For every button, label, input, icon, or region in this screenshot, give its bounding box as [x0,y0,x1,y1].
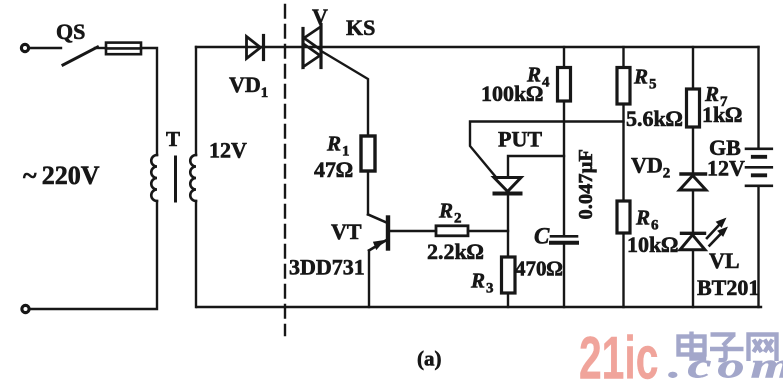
svg-text:5.6kΩ: 5.6kΩ [626,106,683,131]
LED VL cathode bar [682,232,705,235]
svg-text:0.047µF: 0.047µF [575,149,597,219]
thyristor V (KS) left bar [301,29,304,68]
wire battery to bottom rail [757,187,759,307]
wire R1 to VT collector [367,171,369,215]
transistor VT emitter arrow [374,241,384,250]
dashed separation line [284,5,286,335]
wire secondary bottom to rail [195,201,197,307]
wire PUT anode branch [508,156,564,177]
wire rail to R5 [622,47,624,68]
svg-text:12V: 12V [209,138,247,163]
wire rail right corner to battery [757,47,759,149]
transformer T primary winding [151,155,157,201]
watermark char dian [679,332,705,359]
svg-text:T: T [166,127,180,151]
svg-text:5: 5 [649,77,657,93]
svg-text:.com: .com [668,345,783,381]
wire R4 to capacitor C [563,101,565,235]
svg-text:1kΩ: 1kΩ [702,102,742,127]
wire PUT cathode to R3 [507,196,509,258]
fuse FU [106,43,141,55]
svg-text:10kΩ: 10kΩ [627,232,678,257]
wire VD2 to VL [692,190,694,233]
wire VT base to R2 [390,230,436,232]
svg-text:~ 220V: ~ 220V [23,161,100,190]
thyristor V upper triangle [304,27,321,51]
terminal bottom-left [22,305,29,312]
diode VD2 cathode bar [681,172,706,175]
battery GB plates [746,149,772,186]
resistor R6 [617,201,630,233]
watermark char zi [710,335,744,361]
diode VD2 triangle [680,176,707,191]
wire rail to R7 [692,47,694,89]
wire switch to fuse [95,47,106,49]
svg-text:R: R [470,269,485,293]
wire VT emitter to bottom rail [368,251,370,308]
transistor VT collector lead [368,215,387,223]
terminal top-left [21,44,28,51]
svg-text:C: C [534,224,550,249]
watermark char wang [749,335,777,362]
wire rail to R4 [563,47,565,68]
svg-text:21ic: 21ic [579,325,658,381]
svg-text:2: 2 [454,211,462,227]
transformer T core [174,157,177,201]
svg-text:47Ω: 47Ω [314,157,353,182]
svg-text:PUT: PUT [498,127,542,152]
wire fuse to corner [141,48,157,155]
transistor VT base bar [386,218,390,249]
PUT gate wire [470,122,624,177]
wire terminal to switch [30,47,62,49]
svg-text:VL: VL [709,248,740,273]
LED VL triangle [680,235,705,250]
transformer T secondary winding [190,155,196,201]
wire R2 to node [468,230,508,232]
thyristor gate wire to R1 [322,52,368,137]
transistor VT emitter lead [369,240,387,251]
svg-text:R: R [633,65,648,89]
resistor R3 [502,257,516,293]
resistor R7 [687,89,700,127]
resistor R5 [617,68,630,105]
svg-text:2.2kΩ: 2.2kΩ [427,239,484,264]
wire R7 to VD2 [692,127,694,174]
wire secondary top to rail [195,47,197,155]
thyristor V (KS) right bar [319,25,322,68]
capacitor C bottom plate [551,241,577,245]
capacitor C top plate [551,235,577,238]
svg-text:R: R [438,199,453,223]
svg-text:QS: QS [56,19,85,44]
svg-text:V: V [312,4,328,29]
PUT triangle [494,178,521,192]
wire R3 to bottom rail [507,293,509,307]
svg-text:12V: 12V [707,156,745,181]
svg-text:3: 3 [486,281,494,297]
wire bottom rail [197,306,761,308]
svg-text:VT: VT [331,219,362,244]
svg-text:R: R [326,132,341,156]
thyristor V lower triangle [303,44,320,68]
LED VL light arrow 1 [707,224,721,239]
svg-text:R: R [635,206,650,230]
wire R5 to R6 [622,104,624,201]
wire primary bottom to terminal [30,201,157,309]
wire C to bottom rail [563,245,565,307]
PUT cathode bar [495,192,521,196]
diode VD1 [247,36,264,60]
svg-text:470Ω: 470Ω [515,257,563,281]
switch QS blade [63,47,98,65]
svg-text:100kΩ: 100kΩ [481,81,543,106]
svg-text:KS: KS [346,15,375,40]
resistor R4 [558,68,571,102]
wire top rail [196,46,759,48]
wire R6 to bottom rail [622,233,624,307]
svg-text:BT201: BT201 [697,275,759,300]
svg-text:4: 4 [542,75,550,91]
LED VL light arrow 2 [710,232,723,246]
resistor R1 [361,136,375,171]
svg-text:(a): (a) [417,347,442,371]
svg-text:3DD731: 3DD731 [289,255,365,280]
resistor R2 [436,226,468,236]
wire VL to bottom rail [692,250,694,307]
